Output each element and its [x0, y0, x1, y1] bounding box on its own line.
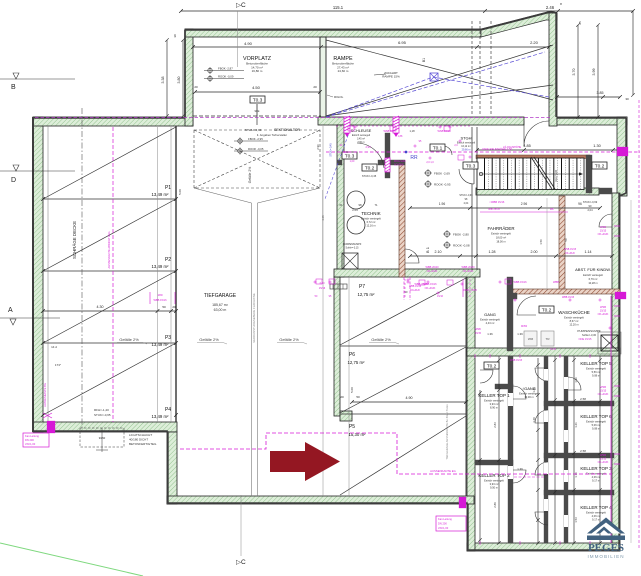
- svg-text:2,04: 2,04: [587, 208, 593, 212]
- svg-text:WASCHKÜCHE: WASCHKÜCHE: [558, 310, 590, 315]
- svg-text:9,17 m: 9,17 m: [592, 479, 600, 483]
- svg-text:25: 25: [578, 21, 582, 25]
- svg-text:29,66 m: 29,66 m: [462, 149, 471, 152]
- svg-text:DN 200: DN 200: [25, 438, 34, 442]
- svg-text:□WBB 15/16: □WBB 15/16: [490, 200, 505, 204]
- svg-text:TIEFGARAGE: TIEFGARAGE: [204, 293, 237, 299]
- svg-text:T0.2: T0.2: [365, 166, 375, 172]
- svg-text:OK+DUK: OK+DUK: [598, 312, 609, 316]
- svg-text:1.50: 1.50: [539, 239, 543, 245]
- svg-text:10,30 m: 10,30 m: [524, 395, 533, 399]
- svg-text:4,43 m²: 4,43 m²: [486, 321, 495, 325]
- svg-text:1,88: 1,88: [398, 135, 403, 138]
- svg-text:4,06 m²: 4,06 m²: [592, 514, 601, 518]
- svg-text:LIÄ RAUMHÖHE: LIÄ RAUMHÖHE: [503, 146, 522, 149]
- svg-text:B 1: B 1: [425, 246, 430, 253]
- svg-text:180: 180: [157, 293, 162, 297]
- svg-text:30: 30: [173, 34, 177, 38]
- svg-text:WB 78/78: WB 78/78: [488, 207, 500, 211]
- svg-text:4.85: 4.85: [523, 144, 530, 148]
- svg-text:14 d: 14 d: [51, 345, 57, 349]
- svg-text:T0.2: T0.2: [542, 308, 552, 314]
- svg-text:Estrich versiegelt: Estrich versiegelt: [491, 232, 511, 236]
- svg-text:6,79 m²: 6,79 m²: [589, 277, 598, 281]
- svg-text:WSB 15/15: WSB 15/15: [564, 248, 577, 251]
- svg-text:2.58: 2.58: [580, 397, 586, 401]
- svg-text:5.00: 5.00: [178, 189, 182, 195]
- svg-text:8,67 m²: 8,67 m²: [570, 319, 579, 323]
- svg-text:2.58: 2.58: [580, 449, 586, 453]
- svg-text:FBOK -2,95: FBOK -2,95: [248, 137, 263, 141]
- svg-text:15/15: 15/15: [600, 309, 607, 313]
- svg-text:WSB: WSB: [600, 225, 606, 229]
- svg-text:FAHRRÄDER: FAHRRÄDER: [487, 226, 514, 231]
- svg-text:13,49 m²: 13,49 m²: [152, 414, 170, 419]
- svg-text:1.36: 1.36: [487, 332, 493, 336]
- svg-text:IMMOBILIEN: IMMOBILIEN: [587, 554, 624, 559]
- svg-text:15/16: 15/16: [437, 295, 444, 298]
- svg-text:KELLER TOP 5: KELLER TOP 5: [580, 361, 612, 366]
- svg-text:20: 20: [194, 85, 198, 89]
- svg-text:1.30: 1.30: [593, 144, 600, 148]
- svg-text:T0.2: T0.2: [487, 364, 497, 370]
- svg-text:KELLER TOP 4: KELLER TOP 4: [580, 505, 612, 510]
- svg-text:NOE 15/15: NOE 15/15: [579, 337, 592, 341]
- svg-text:WBB: WBB: [553, 280, 559, 284]
- svg-text:2,93: 2,93: [365, 145, 371, 149]
- svg-text:5.00: 5.00: [350, 387, 354, 393]
- svg-text:ROOK -0,09: ROOK -0,09: [218, 74, 234, 78]
- svg-text:3.99: 3.99: [592, 69, 596, 76]
- svg-text:Estrich versiegelt: Estrich versiegelt: [583, 273, 603, 277]
- svg-text:STUK=-0,45: STUK=-0,45: [330, 143, 333, 157]
- svg-text:13,49 m²: 13,49 m²: [152, 342, 170, 347]
- svg-text:P1: P1: [165, 185, 171, 191]
- svg-text:AUSSENKANTE BG: AUSSENKANTE BG: [43, 383, 47, 407]
- svg-text:WSB: WSB: [600, 453, 606, 457]
- svg-text:OK+DUK: OK+DUK: [598, 392, 609, 396]
- svg-text:T0.3: T0.3: [345, 154, 355, 160]
- svg-text:15/15: 15/15: [600, 389, 607, 393]
- svg-text:2,04: 2,04: [464, 202, 469, 205]
- svg-text:WSB 15/15: WSB 15/15: [510, 359, 523, 362]
- svg-text:18,00 m: 18,00 m: [496, 240, 505, 244]
- svg-text:173°: 173°: [55, 363, 62, 367]
- svg-text:LICHTSCHACHT: LICHTSCHACHT: [129, 433, 152, 437]
- svg-text:2.00: 2.00: [531, 250, 538, 254]
- svg-text:P7: P7: [359, 284, 365, 290]
- svg-text:Estrich versiegelt: Estrich versiegelt: [484, 399, 504, 403]
- svg-text:T0.3: T0.3: [466, 164, 476, 170]
- svg-text:SEKTIONALTOR: SEKTIONALTOR: [274, 128, 300, 132]
- svg-text:SCHRÄGE DECKE: SCHRÄGE DECKE: [72, 221, 77, 259]
- svg-text:13,49 m²: 13,49 m²: [152, 192, 170, 197]
- svg-text:KELLER TOP 6: KELLER TOP 6: [580, 414, 612, 419]
- svg-text:10,28 m: 10,28 m: [588, 281, 597, 285]
- svg-text:RR: RR: [410, 155, 418, 161]
- svg-text:STUK=-0,96: STUK=-0,96: [459, 194, 473, 197]
- svg-text:SCHÖNE: SCHÖNE: [394, 164, 404, 167]
- svg-text:▷C: ▷C: [236, 559, 246, 566]
- svg-text:13,49 m²: 13,49 m²: [152, 264, 170, 269]
- svg-text:WBB 15/15: WBB 15/15: [562, 296, 575, 299]
- svg-text:TIEFGARAGE AUSSENKANTE Bo Zmrk: TIEFGARAGE AUSSENKANTE Bo Zmrkt Türen: [445, 404, 449, 460]
- svg-text:D: D: [11, 177, 16, 184]
- svg-text:6.95: 6.95: [398, 40, 407, 45]
- svg-text:WSB: WSB: [600, 305, 606, 309]
- svg-text:40/180 DICHT: 40/180 DICHT: [129, 438, 148, 442]
- svg-text:18,00 m²: 18,00 m²: [496, 236, 506, 240]
- svg-text:1.21: 1.21: [574, 422, 578, 428]
- svg-text:VERDUNSTUNGSEBENE FLACHWNE: VERDUNSTUNGSEBENE FLACHWNE: [252, 293, 256, 343]
- svg-text:KELLER TOP 1: KELLER TOP 1: [478, 393, 510, 398]
- svg-text:STGH: STGH: [460, 136, 471, 141]
- svg-text:Kan.Leitung: Kan.Leitung: [25, 434, 39, 438]
- svg-text:9,08 m: 9,08 m: [592, 427, 600, 431]
- svg-text:3.80: 3.80: [177, 77, 181, 84]
- svg-text:71: 71: [374, 203, 378, 207]
- svg-text:30: 30: [625, 97, 629, 101]
- svg-text:4.90: 4.90: [406, 396, 413, 400]
- svg-text:STU/H=0,93: STU/H=0,93: [245, 128, 262, 132]
- svg-text:7,60 m: 7,60 m: [357, 141, 364, 144]
- svg-text:4.50: 4.50: [252, 85, 261, 90]
- svg-text:T0.2: T0.2: [595, 164, 605, 170]
- svg-text:T0.1: T0.1: [433, 146, 443, 152]
- svg-text:12,16 m: 12,16 m: [366, 224, 375, 228]
- svg-text:Estrich versiegelt: Estrich versiegelt: [586, 472, 606, 476]
- svg-text:98: 98: [358, 203, 362, 207]
- svg-text:DN50 15/15: DN50 15/15: [463, 288, 477, 292]
- svg-text:1.39: 1.39: [517, 467, 523, 471]
- svg-text:2,01: 2,01: [344, 151, 349, 154]
- svg-text:PEGES: PEGES: [588, 542, 624, 554]
- svg-text:WF: WF: [550, 207, 554, 211]
- svg-text:90/90: 90/90: [99, 436, 106, 440]
- svg-text:1.39: 1.39: [517, 332, 523, 336]
- svg-text:RFH=-1,40: RFH=-1,40: [94, 408, 109, 412]
- svg-text:J⁄N=1,00: J⁄N=1,00: [438, 526, 449, 530]
- svg-text:15/15: 15/15: [600, 229, 607, 233]
- svg-text:OK+DUK: OK+DUK: [425, 286, 436, 290]
- svg-text:2.04: 2.04: [352, 208, 358, 212]
- svg-text:WOG SUM: WOG SUM: [394, 161, 406, 163]
- svg-text:2.96: 2.96: [521, 202, 528, 206]
- svg-text:5,06 m²: 5,06 m²: [592, 423, 601, 427]
- svg-text:Gefälle 2%: Gefälle 2%: [248, 167, 252, 184]
- svg-text:1.96: 1.96: [439, 202, 446, 206]
- svg-text:3.70: 3.70: [572, 69, 576, 76]
- svg-text:5,56 m²: 5,56 m²: [592, 370, 601, 374]
- svg-text:1,18: 1,18: [409, 129, 415, 133]
- svg-text:Estrich versiegelt: Estrich versiegelt: [564, 316, 584, 320]
- svg-text:15/15: 15/15: [600, 457, 607, 461]
- svg-text:Gefälle 2%: Gefälle 2%: [119, 337, 139, 342]
- svg-text:1.53: 1.53: [574, 517, 578, 523]
- svg-text:P5: P5: [349, 424, 355, 430]
- svg-text:KELLER TOP 3: KELLER TOP 3: [580, 466, 612, 471]
- svg-text:15/15: 15/15: [475, 332, 482, 335]
- svg-text:STUK=-0,99: STUK=-0,99: [583, 200, 598, 204]
- svg-text:WBB 20/20: WBB 20/20: [461, 265, 475, 269]
- svg-text:GANG: GANG: [484, 312, 496, 317]
- svg-text:3.38: 3.38: [161, 77, 165, 84]
- svg-text:OK+DUK: OK+DUK: [427, 269, 438, 273]
- svg-text:3,93 m²: 3,93 m²: [490, 482, 499, 486]
- svg-text:4,06 m²: 4,06 m²: [592, 475, 601, 479]
- svg-text:▷C: ▷C: [236, 2, 246, 9]
- svg-text:P4: P4: [165, 407, 171, 413]
- svg-text:OK+DUK: OK+DUK: [598, 232, 609, 236]
- svg-text:12,75 m²: 12,75 m²: [358, 292, 376, 297]
- svg-text:Estrich versiegelt: Estrich versiegelt: [586, 420, 606, 424]
- svg-text:PUMPENSUMPF: PUMPENSUMPF: [577, 329, 601, 333]
- svg-text:50: 50: [162, 305, 166, 309]
- svg-text:2.46: 2.46: [546, 5, 555, 10]
- svg-text:WBB 15/16: WBB 15/16: [423, 282, 437, 286]
- svg-text:4.30: 4.30: [97, 305, 104, 309]
- svg-text:Estrich versiegelt: Estrich versiegelt: [519, 392, 539, 396]
- svg-text:ABST. FÜR KINDW.: ABST. FÜR KINDW.: [575, 267, 611, 272]
- svg-text:FBOK -2,87: FBOK -2,87: [218, 66, 233, 70]
- svg-text:1.96: 1.96: [574, 377, 578, 383]
- svg-text:8,90 m: 8,90 m: [490, 406, 498, 410]
- svg-text:15/16: 15/16: [319, 286, 326, 290]
- svg-text:115.1: 115.1: [333, 5, 344, 10]
- svg-text:12,75 m²: 12,75 m²: [348, 360, 366, 365]
- svg-text:2.20: 2.20: [530, 40, 539, 45]
- svg-text:50: 50: [356, 395, 360, 399]
- svg-text:1.14: 1.14: [585, 250, 592, 254]
- svg-text:P2: P2: [165, 257, 171, 263]
- svg-text:Estrich versiegelt: Estrich versiegelt: [361, 217, 381, 221]
- svg-text:20: 20: [313, 85, 317, 89]
- svg-text:WSB: WSB: [475, 328, 481, 331]
- svg-text:RAMPE 15%: RAMPE 15%: [382, 75, 400, 79]
- svg-text:P3: P3: [165, 335, 171, 341]
- svg-text:Estrich versiegelt: Estrich versiegelt: [586, 367, 606, 371]
- svg-text:3.85: 3.85: [597, 91, 604, 95]
- svg-text:Kan.Leitung: Kan.Leitung: [438, 517, 452, 521]
- svg-text:16,80 m: 16,80 m: [252, 69, 263, 73]
- svg-text:T0.3: T0.3: [253, 98, 263, 104]
- svg-text:WBB 15/16: WBB 15/16: [409, 285, 422, 288]
- svg-text:Sohle=-3,30: Sohle=-3,30: [582, 333, 597, 337]
- svg-text:RIGOL: RIGOL: [334, 95, 344, 99]
- svg-text:Gefälle 2%: Gefälle 2%: [371, 337, 391, 342]
- svg-text:AUSSENKANTE ABDICHTUNG: AUSSENKANTE ABDICHTUNG: [107, 231, 111, 268]
- svg-text:P6: P6: [349, 352, 355, 358]
- svg-text:Estrich versiegelt: Estrich versiegelt: [586, 511, 606, 515]
- svg-text:OK+DUK: OK+DUK: [463, 269, 474, 273]
- svg-text:J⁄N=1,00: J⁄N=1,00: [25, 442, 36, 446]
- svg-text:WBB 20/20: WBB 20/20: [425, 265, 439, 269]
- svg-text:Gefälle 2%: Gefälle 2%: [279, 337, 299, 342]
- svg-text:TECHNIK: TECHNIK: [361, 211, 380, 216]
- svg-text:OK+DUK: OK+DUK: [565, 252, 575, 255]
- svg-text:STUK=-0,45: STUK=-0,45: [362, 174, 377, 178]
- svg-text:DN+DUK: DN+DUK: [410, 289, 420, 292]
- svg-text:WSB: WSB: [600, 385, 606, 389]
- svg-text:16x17,6/28: 16x17,6/28: [555, 169, 558, 182]
- svg-text:B: B: [11, 84, 16, 91]
- svg-text:B1: B1: [422, 58, 426, 62]
- svg-text:96: 96: [578, 202, 582, 206]
- svg-text:15/15: 15/15: [550, 348, 557, 351]
- svg-text:61: 61: [339, 203, 343, 207]
- svg-text:AUSSENKANTE EG: AUSSENKANTE EG: [430, 469, 456, 473]
- svg-text:BETONFERTIGTEIL: BETONFERTIGTEIL: [129, 442, 157, 446]
- svg-text:A: A: [8, 307, 13, 314]
- svg-text:1.29: 1.29: [532, 417, 536, 423]
- svg-text:6,72 m²: 6,72 m²: [367, 220, 376, 224]
- svg-text:63,00 m: 63,00 m: [214, 308, 227, 312]
- svg-text:FBOK -2,69: FBOK -2,69: [434, 171, 450, 175]
- svg-text:OK+DUK: OK+DUK: [598, 460, 609, 464]
- svg-text:9,17 m: 9,17 m: [592, 518, 600, 522]
- svg-text:3,93 m²: 3,93 m²: [490, 402, 499, 406]
- svg-text:ROOK -0,95: ROOK -0,95: [434, 182, 451, 186]
- svg-text:2,0 1,0: 2,0 1,0: [426, 161, 434, 164]
- svg-text:ROOK -0,05: ROOK -0,05: [248, 147, 264, 151]
- svg-text:STUK=-0,65: STUK=-0,65: [94, 413, 111, 417]
- svg-text:WBB 15/16: WBB 15/16: [513, 280, 527, 284]
- svg-text:Estrich versiegelt: Estrich versiegelt: [480, 318, 500, 322]
- svg-text:DN 200: DN 200: [438, 522, 447, 526]
- svg-text:185,67 m²: 185,67 m²: [212, 303, 229, 307]
- svg-text:12,20 m: 12,20 m: [569, 323, 578, 327]
- svg-text:4.90: 4.90: [244, 41, 253, 46]
- svg-text:WM: WM: [528, 337, 534, 341]
- svg-text:2.83: 2.83: [493, 422, 497, 428]
- svg-text:Gefälle 2%: Gefälle 2%: [199, 337, 219, 342]
- svg-text:1.28: 1.28: [489, 250, 496, 254]
- svg-text:20: 20: [172, 305, 176, 309]
- svg-text:2.89: 2.89: [493, 502, 497, 508]
- svg-text:2.10: 2.10: [435, 250, 442, 254]
- svg-text:2.96: 2.96: [316, 144, 320, 150]
- svg-text:20: 20: [340, 395, 344, 399]
- svg-text:1.76: 1.76: [574, 472, 578, 478]
- svg-text:DN50: DN50: [521, 325, 528, 328]
- svg-text:2,40: 2,40: [319, 281, 325, 285]
- svg-text:WBB 15/16: WBB 15/16: [153, 298, 167, 302]
- svg-text:lt. Angaben Torhersteller: lt. Angaben Torhersteller: [257, 133, 287, 137]
- svg-text:↑GANG: ↑GANG: [522, 386, 536, 391]
- svg-text:ROOK -0,08: ROOK -0,08: [453, 243, 470, 247]
- svg-text:24,60 m: 24,60 m: [338, 69, 349, 73]
- svg-text:50: 50: [564, 238, 568, 242]
- svg-text:1,00: 1,00: [350, 160, 355, 163]
- svg-text:9,08 m: 9,08 m: [592, 374, 600, 378]
- svg-text:9,50 m: 9,50 m: [490, 486, 498, 490]
- svg-text:FBOK -2,80: FBOK -2,80: [453, 232, 469, 236]
- svg-text:Sohle=-3,15: Sohle=-3,15: [346, 247, 360, 250]
- svg-text:Estrich versiegelt: Estrich versiegelt: [484, 479, 504, 483]
